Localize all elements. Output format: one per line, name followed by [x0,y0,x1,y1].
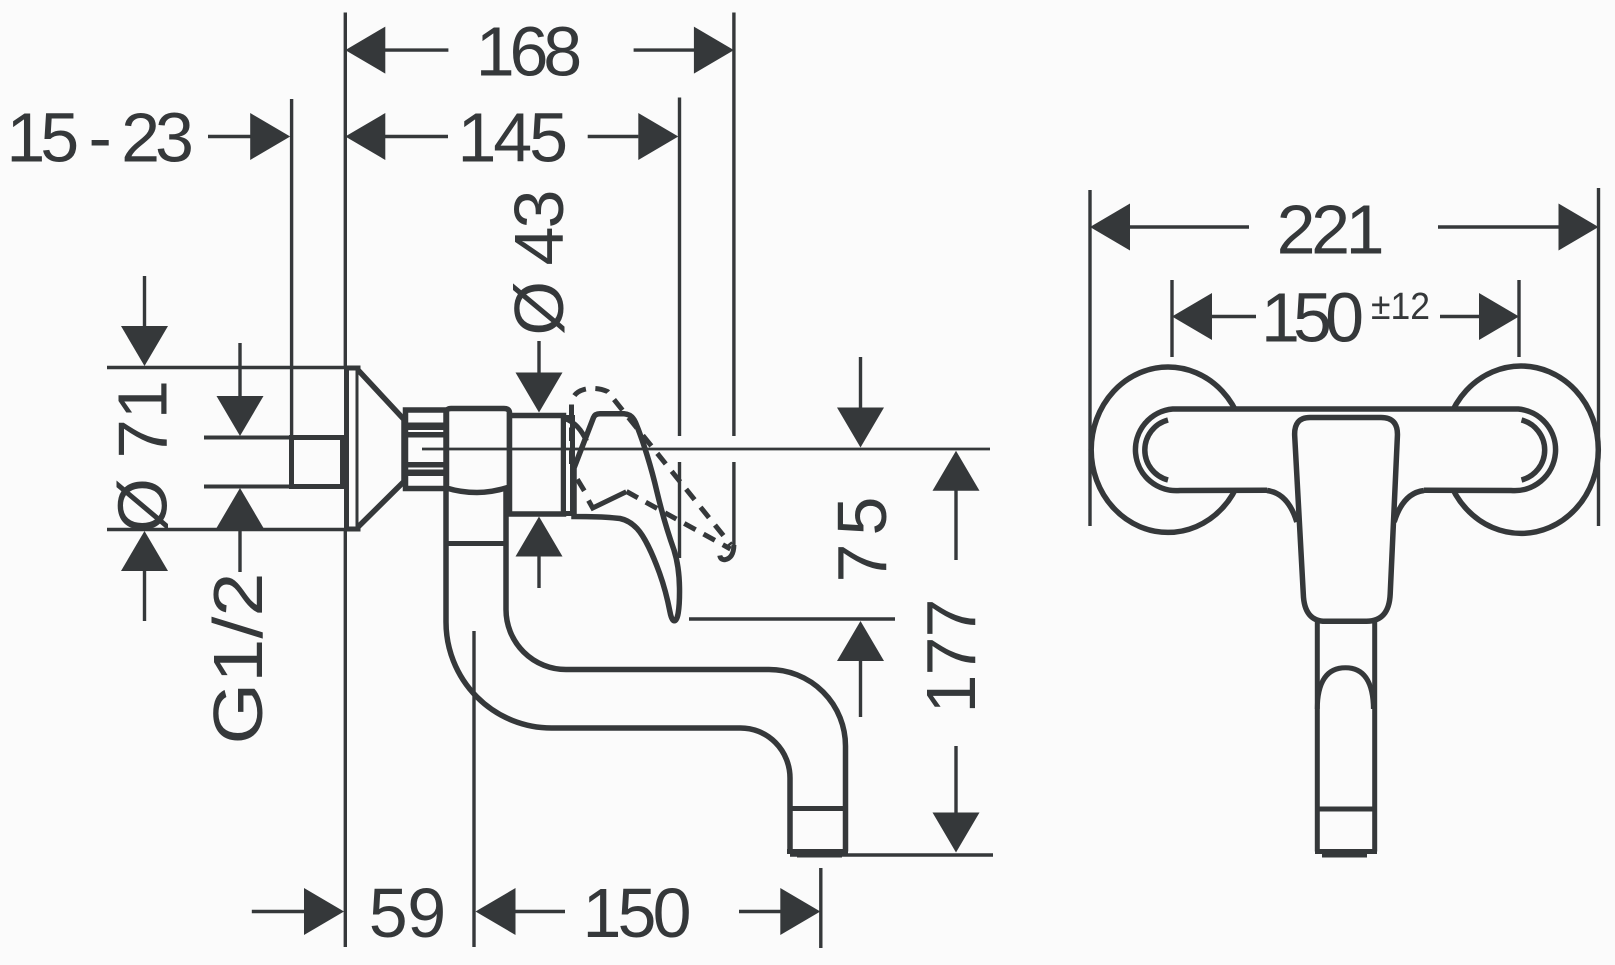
lever handle (down position) [574,414,680,621]
spout outlet foot [797,852,842,858]
connection nut [406,410,447,489]
dashed handle (raised position) upper edge [572,388,732,545]
spout down-tube [446,490,790,852]
svg-text:59: 59 [369,874,447,952]
svg-text:±12: ±12 [1371,286,1430,328]
dim 150 left arrow [476,888,516,935]
svg-text:150: 150 [1261,279,1364,357]
extension line wall-front / main [344,13,347,368]
dim 150pm left arrow [1172,293,1212,340]
svg-text:177: 177 [912,599,990,714]
nut ridge band 2 [404,432,446,438]
dim 43 bottom arrow [537,553,540,588]
extension line 168 lower segment [732,462,735,546]
spout aerator line [790,806,846,811]
body bar fill [1132,409,1559,491]
svg-text:168: 168 [476,13,583,91]
dim 43 top arrow [537,341,540,376]
left escutcheon circle [1091,367,1245,532]
dim 59 outside arrow [252,910,306,913]
dimension 168 left arrow [345,27,385,74]
front outlet bottom edge [1315,849,1377,854]
dim 75 bottom arrow [859,659,862,717]
dim 150 right arrow [739,910,782,913]
front aerator line [1315,807,1377,812]
dimension 145 line [385,135,448,138]
body bar outline left half [1135,409,1345,491]
extension line 145 lower segment [678,462,681,558]
front spout tube left edge [1315,621,1320,851]
bar right bottom fillet [1394,491,1424,523]
extension line 168 [732,13,735,437]
extension line 221 right [1597,188,1600,526]
extension line spout center [472,631,475,947]
handle tip reference line [689,617,895,620]
svg-text:Ø 43: Ø 43 [500,190,578,336]
square top edge extension [204,436,292,440]
front handle [1295,418,1398,622]
bar left cap inner curve [1145,420,1168,480]
body bar outline right half [1345,409,1556,491]
svg-text:150: 150 [583,874,692,952]
front spout tube right edge [1372,621,1377,851]
nut ridge band 1 [404,423,446,431]
dim 177 top arrow [954,489,957,560]
svg-text:G1/2: G1/2 [199,573,277,745]
dim 221 right arrow [1559,204,1599,251]
dimension 15-23 arrow [250,113,290,160]
dimension 145 left arrow [345,113,385,160]
extension line 150pm right [1517,280,1520,357]
square bottom edge extension [204,485,292,489]
extension line wall-back (15-23) [290,99,293,436]
handle base fillet arc [566,419,587,441]
dim 71 top arrow [143,276,146,328]
escutcheon cone [359,371,405,527]
nut ridge band 3 [404,462,446,468]
escutcheon back plate [347,368,359,529]
spout tube inner/top edge [506,490,846,852]
dashed handle lower edge [627,492,731,550]
spout outlet bottom edge [787,849,848,854]
dashed handle tip hook [720,545,734,560]
body end cap [564,418,573,514]
centerline [422,448,990,451]
dim 71 bottom arrow [143,570,146,621]
spout joint line [446,541,506,546]
front spout arch [1317,668,1373,709]
svg-text:221: 221 [1277,191,1385,269]
dim 177 bottom arrow [954,746,957,816]
dashed handle lower-edge dash near cap [577,479,584,491]
bar right cap inner curve [1522,420,1545,480]
nut ridge band 4 [404,470,446,477]
dim 71 bottom line [107,528,345,531]
bar left bottom fillet [1267,491,1297,523]
dim G1/2 bottom arrow [238,524,241,572]
dimension 168 right arrow [694,27,734,74]
svg-text:Ø 71: Ø 71 [104,380,182,533]
right escutcheon circle [1444,366,1599,533]
valve body [447,409,510,493]
svg-text:15 - 23: 15 - 23 [6,99,194,177]
svg-text:145: 145 [458,99,569,177]
dim 75 top arrow [859,357,862,411]
extension line 145 [678,98,681,437]
escutcheon plate face line [356,372,358,525]
dimension 145 right arrow [638,113,678,160]
extension line 150pm left [1170,280,1173,357]
dim 221 left arrow [1090,204,1130,251]
main wall line lower part [344,530,347,947]
wall pipe square (G1/2 stub) [292,438,343,487]
svg-text:75: 75 [823,497,901,583]
dim G1/2 top arrow [238,343,241,398]
extension line outlet center [819,868,822,948]
dimension 168 line [385,48,448,51]
dashed handle lower-edge check segment [589,492,627,508]
dim 150pm right arrow [1479,293,1519,340]
dim 221 line [1128,225,1249,228]
front outlet foot [1322,852,1367,858]
spout bottom reference line [790,853,993,856]
cartridge housing [510,416,564,515]
dimension 15-23 tail [208,135,251,138]
dim 71 top line [107,366,346,369]
dim 150pm line [1210,315,1256,318]
extension line 221 left [1088,190,1091,526]
